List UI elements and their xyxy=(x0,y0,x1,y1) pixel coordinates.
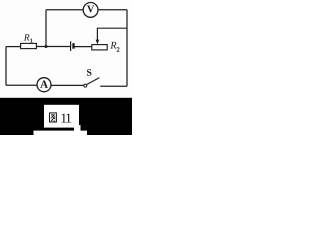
wire: R1 right lead through node to battery xyxy=(36,46,70,48)
page background xyxy=(0,0,132,135)
wire: switch to bottom right corner xyxy=(100,85,127,87)
resistor R1 body xyxy=(21,43,37,48)
figure label white box xyxy=(44,105,79,128)
wire: rheostat wiper to right vertical xyxy=(97,28,127,40)
wire: ammeter to switch xyxy=(51,84,84,86)
wire: top branch right segment xyxy=(98,9,127,11)
rheostat R2 body xyxy=(92,45,107,50)
battery long plate xyxy=(70,41,72,51)
figure caption: number 11 xyxy=(61,114,71,123)
wire: junction up to voltmeter branch xyxy=(45,10,47,47)
label R1 xyxy=(24,34,33,42)
wire: left lead of R1 xyxy=(6,46,21,48)
figure caption: glyph 图 xyxy=(50,113,57,122)
label R2 xyxy=(110,42,119,52)
battery short thick plate xyxy=(72,43,74,49)
switch S pivot xyxy=(84,84,87,87)
switch S lever xyxy=(87,78,100,85)
ammeter A xyxy=(37,78,51,92)
wire: right vertical xyxy=(126,10,128,87)
label S xyxy=(87,69,91,75)
voltmeter V xyxy=(83,2,98,17)
node: junction R1/battery/voltmeter branch xyxy=(45,45,48,48)
rheostat R2 wiper arrowhead xyxy=(96,40,100,45)
black scan bar xyxy=(0,98,132,135)
wire: bottom left segment xyxy=(6,84,37,86)
wire: top branch left segment xyxy=(46,9,83,11)
white bottom band xyxy=(34,131,88,135)
wire: left vertical xyxy=(5,47,7,86)
white patch at box lower-right xyxy=(74,125,81,131)
wire: battery to R2 xyxy=(74,46,92,48)
